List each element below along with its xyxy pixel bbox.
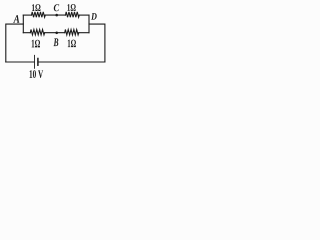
wire: top branch lead-out to D <box>79 14 89 16</box>
node B junction dot <box>55 32 58 35</box>
resistor 1 ohm (bottom branch, A to B) <box>30 30 44 35</box>
wire: outer left from node A feed down to battery <box>6 24 24 62</box>
value label 1 ohm (bottom left resistor) <box>32 40 40 48</box>
wire: bottom right segment from battery negative plate <box>39 61 105 63</box>
node C label <box>54 4 59 11</box>
value label 1 ohm (top right resistor) <box>67 4 75 11</box>
resistor 1 ohm (bottom branch, B to D) <box>65 30 79 35</box>
resistor 1 ohm (top branch, A to C) <box>32 12 46 17</box>
node D label <box>91 13 97 20</box>
node D junction bar joining both branches (right) <box>88 15 90 33</box>
node A junction bar joining both branches (left) <box>22 15 24 33</box>
battery: short thick negative plate <box>37 59 39 66</box>
wire: bottom branch lead-in from A <box>23 32 30 34</box>
battery: long positive plate <box>34 55 36 68</box>
node C junction dot <box>55 14 58 17</box>
wire: outer right from node D feed down to battery <box>89 24 105 62</box>
node A label <box>13 15 19 23</box>
wire: bottom left segment to battery positive plate <box>6 61 34 63</box>
resistor 1 ohm (top branch, C to D) <box>66 12 80 17</box>
wire: bottom branch lead-out to D <box>79 32 89 34</box>
wire: top branch lead-in from A <box>23 14 31 16</box>
value label 1 ohm (top left resistor) <box>32 4 41 11</box>
value label 1 ohm (bottom right resistor) <box>68 40 76 48</box>
wire: bottom branch across node B <box>45 32 65 34</box>
wire: top branch across node C <box>45 14 65 16</box>
node B label <box>54 38 59 46</box>
battery value label 10 V <box>30 70 43 78</box>
